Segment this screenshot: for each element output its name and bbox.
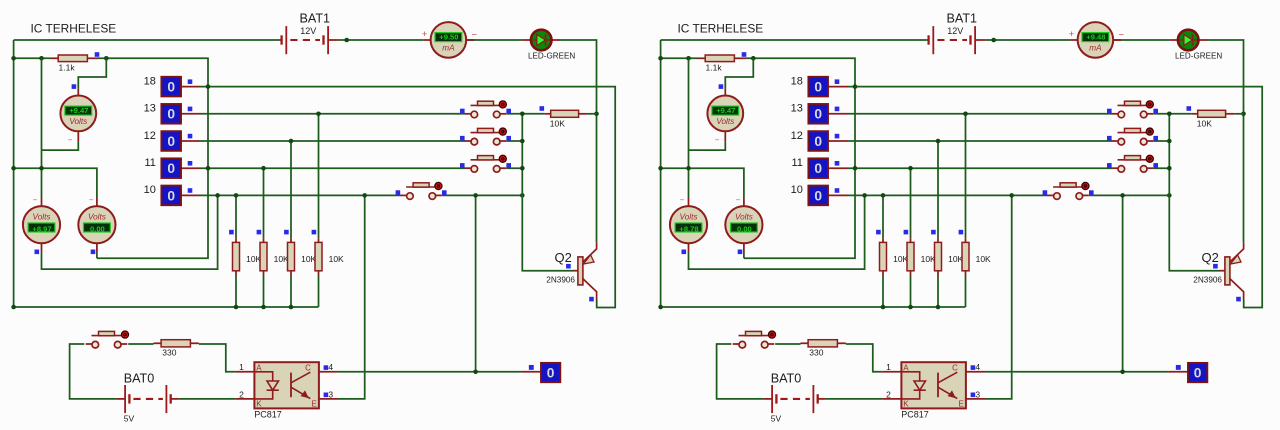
button row11 P1	[460, 155, 511, 172]
label minus V2 P2	[736, 195, 741, 204]
voltmeter V1 P2	[670, 206, 707, 243]
resistor R4 10K P1	[315, 238, 344, 275]
optocoupler U1 PC817 P1	[235, 362, 338, 419]
wire optocoupler C to terminal P1	[338, 371, 522, 373]
battery BAT0 P1	[116, 372, 178, 424]
node row10-R1 P1	[234, 193, 239, 198]
wire ammeter to LED P1	[466, 39, 522, 41]
svg-text:+8.78: +8.78	[679, 224, 698, 233]
pin V2 bottom P2	[743, 243, 745, 252]
node row11-columnJ P2	[853, 166, 858, 171]
node columnA-Vrow P2	[686, 166, 691, 171]
handle R1 P2	[876, 230, 881, 235]
wire button to battery P2	[717, 344, 764, 399]
wire row12 left P2	[847, 140, 1112, 142]
wire row11 right P2	[1153, 167, 1169, 169]
wire row18 P2	[847, 87, 1262, 308]
handle Q2 base P2	[1213, 264, 1218, 269]
wire row13 left P1	[200, 113, 465, 115]
svg-text:18: 18	[791, 75, 803, 87]
svg-text:0: 0	[814, 161, 822, 176]
wire optocoupler C to terminal P2	[985, 371, 1169, 373]
node row13-R4 P1	[316, 112, 321, 117]
wire R3 column P1	[290, 141, 292, 307]
svg-text:10K: 10K	[921, 254, 936, 264]
wire R1 column P1	[235, 195, 237, 307]
svg-text:A: A	[256, 363, 262, 372]
svg-text:3: 3	[328, 389, 333, 399]
wire row10 right P2	[1089, 194, 1169, 196]
wire row11 right P1	[506, 167, 522, 169]
svg-text:+9.47: +9.47	[69, 106, 88, 115]
svg-text:10K: 10K	[976, 254, 991, 264]
resistor R2 10K P2	[907, 238, 936, 275]
voltmeter top P2	[707, 96, 743, 132]
svg-text:Volts: Volts	[716, 117, 734, 126]
svg-text:C: C	[952, 363, 958, 372]
wire 1.1k to crossbar P2	[744, 58, 855, 258]
svg-text:E: E	[312, 400, 317, 409]
node rail-row13 P1	[520, 112, 525, 117]
wire R2 column P1	[263, 168, 265, 307]
node row11-R2 P1	[261, 166, 266, 171]
wire row10 right P1	[442, 194, 522, 196]
svg-text:2N3906: 2N3906	[1193, 275, 1222, 284]
node columnA-Vrow P1	[39, 166, 44, 171]
handle Q2 base P1	[566, 264, 571, 269]
wire row18 P1	[200, 87, 615, 308]
handle optocoupler pin4 P2	[971, 365, 976, 370]
led LED-GREEN P1	[522, 30, 575, 61]
resistor 1.1k P1	[51, 55, 99, 73]
label minus V1 P2	[680, 195, 685, 204]
handle V1 P1	[35, 250, 40, 255]
svg-text:−: −	[472, 30, 478, 41]
probe 11 P1	[144, 157, 200, 178]
node row12-R3 P1	[289, 139, 294, 144]
svg-text:10K: 10K	[1197, 118, 1212, 128]
svg-text:10: 10	[791, 184, 803, 196]
battery BAT0 P2	[763, 372, 825, 424]
svg-text:Volts: Volts	[88, 213, 106, 222]
wire 10K to emitter rail P2	[1235, 113, 1244, 115]
svg-text:0: 0	[167, 107, 175, 122]
svg-text:0: 0	[814, 134, 822, 149]
transistor Q2 2N3906 P1	[546, 242, 596, 300]
wire V-row P1	[14, 168, 97, 197]
node row10-E column P1	[362, 193, 367, 198]
resistor R3 10K P2	[935, 238, 964, 275]
node 1.1k-left P1	[39, 56, 44, 61]
svg-text:10: 10	[144, 184, 156, 196]
wire column A P2	[688, 58, 690, 197]
node 1.1k-right P2	[751, 56, 756, 61]
pin V2 top P2	[743, 198, 745, 207]
node rail-1.1k P2	[658, 56, 663, 61]
node row13-R4 P2	[963, 112, 968, 117]
pin V2 top P1	[96, 198, 98, 207]
wire right rail to base P2	[1169, 114, 1220, 271]
svg-text:+8.97: +8.97	[32, 224, 51, 233]
handle optocoupler pin4 P1	[324, 365, 329, 370]
wire bottom rail P1	[14, 306, 319, 308]
svg-text:0: 0	[547, 366, 555, 381]
node rail-R3 P2	[936, 305, 941, 310]
wire left rail P1	[13, 40, 15, 307]
pin V1 top P1	[41, 198, 43, 207]
wire top rail P2	[661, 39, 927, 41]
svg-text:11: 11	[791, 157, 802, 169]
wire R3 column P2	[937, 141, 939, 307]
wire R4 column P1	[318, 114, 320, 307]
pin V1 bottom P1	[41, 243, 43, 252]
node row10-V1B P1	[215, 193, 220, 198]
wire voltmeter to column A P2	[689, 142, 726, 151]
svg-text:13: 13	[791, 103, 803, 115]
node row18 P2	[853, 84, 858, 89]
wire R1 column P2	[882, 195, 884, 307]
wire V1 bottom P1	[42, 195, 218, 269]
node rail-R3 P1	[289, 305, 294, 310]
wire R2 column P2	[910, 168, 912, 307]
svg-text:1: 1	[886, 362, 891, 372]
node rail-Vrow P1	[11, 166, 16, 171]
handle R2 P2	[904, 230, 909, 235]
handle V1 P2	[682, 250, 687, 255]
node row18 P1	[206, 84, 211, 89]
svg-text:0.00: 0.00	[90, 224, 105, 233]
button row12 P1	[460, 128, 511, 145]
wire to voltmeter top P2	[725, 58, 753, 88]
svg-text:0: 0	[167, 80, 175, 95]
pin voltmeter top P2	[724, 89, 726, 96]
svg-text:0.00: 0.00	[737, 224, 752, 233]
resistor R1 10K P2	[880, 238, 909, 275]
svg-text:0: 0	[167, 188, 175, 203]
svg-text:+9.50: +9.50	[439, 33, 458, 42]
probe 10 P1	[144, 184, 200, 205]
svg-text:12: 12	[791, 130, 803, 142]
optocoupler U1 PC817 P2	[882, 362, 985, 419]
svg-text:10K: 10K	[301, 254, 316, 264]
wire left rail P2	[660, 40, 662, 307]
svg-text:A: A	[903, 363, 909, 372]
resistor 10K pullup P2	[1191, 110, 1235, 128]
wire row10 to terminal wire P1	[475, 195, 477, 371]
node rail corner P2	[658, 305, 663, 310]
handle voltmeter P2	[719, 84, 724, 89]
node rail-row11 P1	[520, 166, 525, 171]
svg-text:Volts: Volts	[33, 213, 51, 222]
svg-text:BAT0: BAT0	[771, 372, 802, 386]
voltmeter V2 P2	[725, 206, 762, 243]
svg-text:13: 13	[144, 103, 156, 115]
svg-text:1.1k: 1.1k	[59, 63, 76, 73]
node rail-1.1k P1	[11, 56, 16, 61]
label minus voltmeter P2	[715, 136, 720, 145]
node battery-ammeter P2	[991, 38, 996, 43]
svg-text:−: −	[715, 136, 720, 145]
svg-text:−: −	[68, 136, 73, 145]
svg-text:5V: 5V	[771, 414, 782, 424]
wire row12 left P1	[200, 140, 465, 142]
wire row10 to optocoupler E P2	[985, 195, 1012, 399]
node rail-row10 P1	[520, 193, 525, 198]
node rail-R1 P2	[881, 305, 886, 310]
resistor R1 10K P1	[233, 238, 262, 275]
svg-text:−: −	[89, 195, 94, 204]
svg-text:PC817: PC817	[901, 409, 929, 419]
node rail-row12 P1	[520, 139, 525, 144]
handle 1.1k P2	[742, 52, 747, 57]
wire R4 column P2	[965, 114, 967, 307]
node battery-ammeter P1	[344, 38, 349, 43]
node row10-E column P2	[1009, 193, 1014, 198]
wire BAT0 to optocoupler 2 P1	[179, 398, 236, 400]
node terminal wire P2	[1120, 370, 1125, 375]
wire top rail P1	[14, 39, 280, 41]
handle optocoupler pin3 P2	[971, 393, 976, 398]
node row12-R3 P2	[936, 139, 941, 144]
wire 1.1k to crossbar P1	[97, 58, 208, 258]
svg-text:BAT0: BAT0	[124, 372, 155, 386]
wire battery to ammeter P1	[339, 39, 424, 41]
svg-text:10K: 10K	[948, 254, 963, 264]
wire LED to emitter rail P1	[560, 40, 597, 242]
label IC TERHELESE P1	[31, 22, 117, 36]
button row13 P2	[1107, 101, 1158, 118]
pin voltmeter bottom P1	[77, 131, 79, 141]
terminal 0 P2	[1169, 363, 1208, 382]
handle Q2 collector P2	[1236, 297, 1241, 302]
handle R4 P1	[312, 230, 317, 235]
node 1.1k-left P2	[686, 56, 691, 61]
svg-text:Volts: Volts	[680, 213, 698, 222]
probe 10 P2	[791, 184, 847, 205]
svg-text:LED-GREEN: LED-GREEN	[1175, 52, 1222, 61]
svg-text:2N3906: 2N3906	[546, 275, 575, 284]
node row10-T column P1	[473, 193, 478, 198]
wire V2 bottom P2	[743, 252, 745, 258]
probe 13 P1	[144, 103, 200, 124]
handle Q2 collector P1	[589, 297, 594, 302]
button row10 P2	[1043, 182, 1094, 199]
ammeter P2	[1069, 22, 1125, 58]
svg-text:Q2: Q2	[1202, 250, 1219, 265]
wire 330 to optocoupler 1 P1	[199, 344, 235, 372]
handle R3 P2	[931, 230, 936, 235]
svg-text:Q2: Q2	[555, 250, 572, 265]
svg-text:10K: 10K	[274, 254, 289, 264]
wire row13 right P1	[506, 113, 544, 115]
wire row10 to terminal wire P2	[1122, 195, 1124, 371]
pin V2 bottom P1	[96, 243, 98, 252]
handle R4 P2	[959, 230, 964, 235]
node rail-R1 P1	[234, 305, 239, 310]
svg-text:10K: 10K	[893, 254, 908, 264]
button start P2	[733, 331, 776, 348]
wire row10 left P1	[200, 194, 401, 196]
resistor R4 10K P2	[962, 238, 991, 275]
probe 12 P2	[791, 130, 847, 151]
svg-text:12: 12	[144, 130, 156, 142]
svg-text:+: +	[422, 29, 428, 40]
button row12 P2	[1107, 128, 1158, 145]
svg-text:Volts: Volts	[735, 213, 753, 222]
svg-text:Volts: Volts	[69, 117, 87, 126]
node terminal wire P1	[473, 370, 478, 375]
svg-text:IC TERHELESE: IC TERHELESE	[678, 22, 764, 36]
label IC TERHELESE P2	[678, 22, 764, 36]
node rail-row10 P2	[1167, 193, 1172, 198]
svg-text:0: 0	[167, 161, 175, 176]
probe 13 P2	[791, 103, 847, 124]
svg-text:BAT1: BAT1	[300, 11, 331, 25]
node rail-row13 P2	[1167, 112, 1172, 117]
handle 1.1k P1	[95, 52, 100, 57]
wire row10 left P2	[847, 194, 1048, 196]
svg-text:BAT1: BAT1	[947, 11, 978, 25]
voltmeter V2 P1	[78, 206, 115, 243]
svg-text:K: K	[903, 400, 909, 409]
handle 10K pullup P1	[540, 106, 545, 111]
svg-text:12V: 12V	[300, 26, 316, 36]
svg-text:0: 0	[167, 134, 175, 149]
node 10K-emitter rail P2	[1241, 112, 1246, 117]
button row11 P2	[1107, 155, 1158, 172]
svg-text:1.1k: 1.1k	[706, 63, 723, 73]
svg-text:4: 4	[975, 362, 980, 372]
handle 10K pullup P2	[1187, 106, 1192, 111]
wire row13 right P2	[1153, 113, 1191, 115]
pin voltmeter top P1	[77, 89, 79, 96]
svg-text:−: −	[736, 195, 741, 204]
svg-text:+9.47: +9.47	[716, 106, 735, 115]
svg-text:mA: mA	[1089, 44, 1102, 53]
handle voltmeter P1	[72, 84, 77, 89]
wire right rail to base P1	[522, 114, 573, 271]
svg-text:2: 2	[886, 389, 891, 399]
svg-text:mA: mA	[442, 44, 455, 53]
resistor R3 10K P1	[288, 238, 317, 275]
svg-text:11: 11	[144, 157, 155, 169]
led LED-GREEN P2	[1169, 30, 1222, 61]
battery BAT1 P1	[280, 11, 339, 54]
node 1.1k-right P1	[104, 56, 109, 61]
wire 330 to optocoupler 1 P2	[846, 344, 882, 372]
label minus V2 P1	[89, 195, 94, 204]
node rail corner P1	[11, 305, 16, 310]
wire voltmeter to column A P1	[42, 142, 79, 151]
wire button to 330 P1	[128, 343, 153, 345]
voltmeter top P1	[60, 96, 96, 132]
pin V1 bottom P2	[688, 243, 690, 252]
resistor 330 P2	[801, 340, 846, 358]
svg-text:−: −	[1119, 30, 1125, 41]
svg-text:12V: 12V	[947, 26, 963, 36]
wire battery to ammeter P2	[986, 39, 1071, 41]
svg-text:10K: 10K	[550, 118, 565, 128]
svg-text:+: +	[1069, 29, 1075, 40]
wire V-row P2	[661, 168, 744, 197]
resistor R2 10K P1	[260, 238, 289, 275]
node row11-columnJ P1	[206, 166, 211, 171]
wire to voltmeter top P1	[78, 58, 106, 88]
node rail-R2 P2	[908, 305, 913, 310]
node row10-T column P2	[1120, 193, 1125, 198]
node row11-R2 P2	[908, 166, 913, 171]
probe 11 P2	[791, 157, 847, 178]
resistor 10K pullup P1	[544, 110, 588, 128]
svg-text:IC TERHELESE: IC TERHELESE	[31, 22, 117, 36]
pin voltmeter bottom P2	[724, 131, 726, 141]
svg-text:10K: 10K	[246, 254, 261, 264]
node 10K-emitter rail P1	[594, 112, 599, 117]
svg-text:330: 330	[809, 347, 823, 357]
probe 18 P1	[144, 75, 200, 96]
wire 1.1k row P2	[661, 57, 698, 59]
button row10 P1	[396, 182, 447, 199]
svg-text:−: −	[680, 195, 685, 204]
handle R1 P1	[229, 230, 234, 235]
resistor 330 P1	[154, 340, 199, 358]
probe 18 P2	[791, 75, 847, 96]
transistor Q2 2N3906 P2	[1193, 242, 1243, 300]
wire bottom rail P2	[661, 306, 966, 308]
wire row13 left P2	[847, 113, 1112, 115]
svg-text:C: C	[305, 363, 311, 372]
node rail-row12 P2	[1167, 139, 1172, 144]
node rail-row11 P2	[1167, 166, 1172, 171]
wire button to 330 P2	[775, 343, 800, 345]
svg-text:18: 18	[144, 75, 156, 87]
wire column A P1	[41, 58, 43, 197]
wire V2 bottom P1	[96, 252, 98, 258]
wire row12 right P2	[1153, 140, 1169, 142]
handle R2 P1	[257, 230, 262, 235]
pin V1 top P2	[688, 198, 690, 207]
svg-text:10K: 10K	[329, 254, 344, 264]
svg-text:E: E	[959, 400, 964, 409]
terminal 0 P1	[522, 363, 561, 382]
resistor 1.1k P2	[698, 55, 746, 73]
probe 12 P1	[144, 130, 200, 151]
label minus voltmeter P1	[68, 136, 73, 145]
wire ammeter to LED P2	[1113, 39, 1169, 41]
wire V1 bottom P2	[689, 195, 865, 269]
wire row11 left P1	[200, 167, 465, 169]
node rail-Vrow P2	[658, 166, 663, 171]
wire 1.1k row P1	[14, 57, 51, 59]
node rail-R2 P1	[261, 305, 266, 310]
wire 10K to emitter rail P1	[588, 113, 597, 115]
svg-text:K: K	[256, 400, 262, 409]
svg-text:PC817: PC817	[254, 409, 282, 419]
wire LED to emitter rail P2	[1207, 40, 1244, 242]
svg-text:330: 330	[162, 347, 176, 357]
handle R3 P1	[284, 230, 289, 235]
voltmeter V1 P1	[23, 206, 60, 243]
wire BAT0 to optocoupler 2 P2	[826, 398, 883, 400]
node row10-R1 P2	[881, 193, 886, 198]
svg-text:3: 3	[975, 389, 980, 399]
button row13 P1	[460, 101, 511, 118]
ammeter P1	[422, 22, 478, 58]
node row10-V1B P2	[862, 193, 867, 198]
svg-text:1: 1	[239, 362, 244, 372]
svg-text:0: 0	[814, 188, 822, 203]
wire row12 right P1	[506, 140, 522, 142]
